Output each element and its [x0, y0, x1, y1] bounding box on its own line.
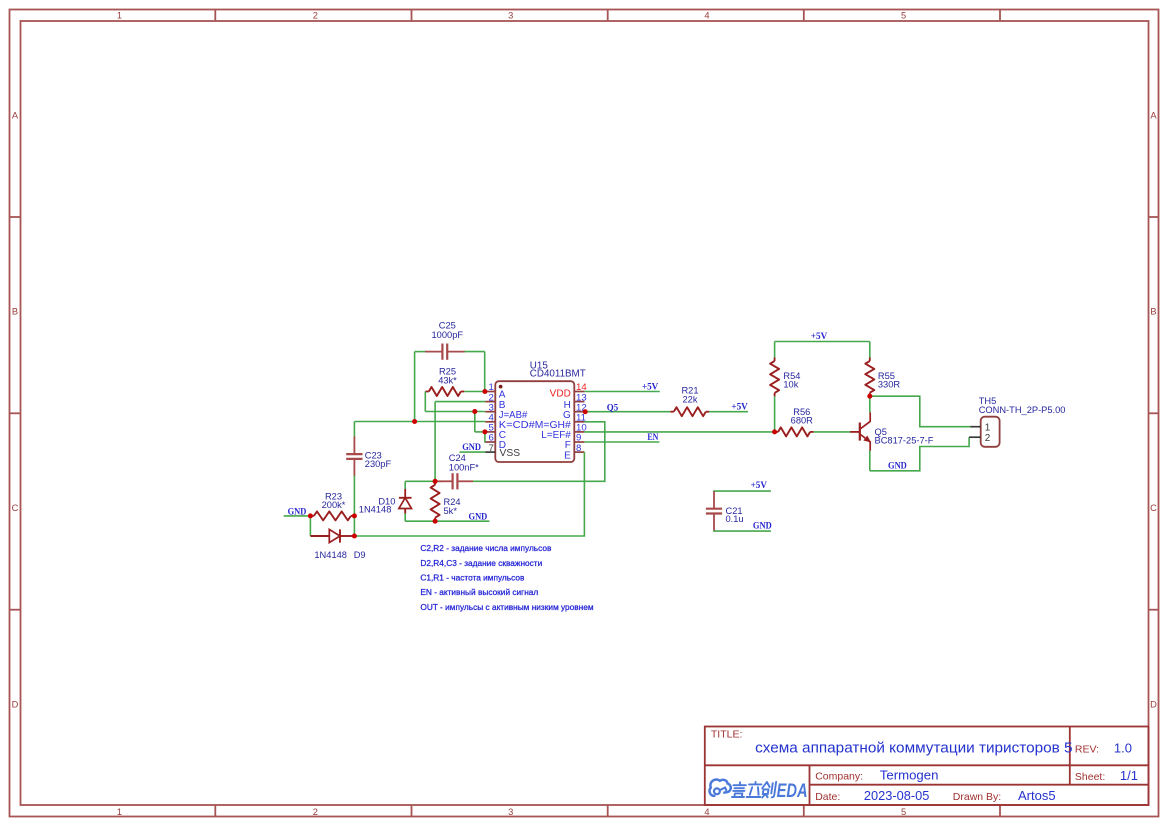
wire collector to R55 node — [869, 396, 871, 412]
svg-text:1: 1 — [117, 807, 122, 817]
svg-text:7: 7 — [488, 443, 493, 454]
svg-text:CONN-TH_2P-P5.00: CONN-TH_2P-P5.00 — [979, 405, 1066, 415]
svg-text:REV:: REV: — [1075, 744, 1099, 756]
svg-text:680R: 680R — [791, 415, 814, 425]
wire R25 left vertical — [424, 392, 426, 412]
wire pins3-5 vertical — [474, 412, 476, 432]
svg-text:Q5: Q5 — [607, 404, 619, 414]
svg-text:100nF*: 100nF* — [449, 463, 479, 473]
junction pin1 node — [482, 389, 487, 394]
wire pin9 EN — [584, 441, 659, 443]
wire C23 bottom vertical — [353, 476, 355, 537]
svg-text:VDD: VDD — [550, 389, 571, 400]
svg-text:1N4148: 1N4148 — [359, 505, 392, 515]
TH5 pin2 stub — [969, 436, 981, 438]
junction R23 right node — [352, 513, 357, 518]
svg-text:B: B — [12, 307, 18, 317]
wire D10-R24-C24 top run — [405, 480, 442, 482]
row tick marks — [10, 217, 1159, 610]
svg-text:A: A — [12, 110, 19, 120]
svg-text:43k*: 43k* — [438, 376, 457, 386]
svg-text:+5V: +5V — [811, 332, 828, 342]
wire D9 to pin8 vertical run — [354, 452, 584, 536]
wire C23 top vertical — [353, 422, 355, 438]
svg-text:+5V: +5V — [642, 382, 659, 392]
capacitor C25 — [425, 344, 465, 360]
svg-text:D2,R4,C3 - задание скважности: D2,R4,C3 - задание скважности — [420, 558, 542, 568]
transistor Q5 BC817-25-7-F — [850, 412, 870, 450]
svg-text:D: D — [12, 699, 19, 709]
svg-text:330R: 330R — [878, 379, 901, 389]
connector TH5 body — [981, 417, 1000, 447]
row letters A-D — [12, 110, 1158, 709]
JLCEDA logo — [710, 779, 808, 802]
resistor R56 680R — [775, 407, 814, 436]
IC U15 pin stubs — [485, 392, 584, 453]
wire R54 top lead — [774, 342, 776, 359]
svg-text:GND: GND — [753, 521, 772, 531]
title block lines — [705, 727, 1149, 806]
resistor R55 330R — [865, 358, 900, 397]
wire emitter GND loop to TH5 pin2 — [870, 437, 969, 471]
junction R55/collector node — [867, 394, 872, 399]
svg-text:C: C — [1150, 503, 1157, 513]
svg-text:3: 3 — [508, 11, 513, 21]
resistor R24 5k* — [431, 481, 461, 521]
svg-text:Termogen: Termogen — [880, 767, 939, 782]
wire GND to pin7 — [460, 451, 486, 453]
IC U15 pin-1 marker dot — [499, 385, 503, 389]
svg-text:4: 4 — [704, 807, 709, 817]
junction pin5 node — [482, 429, 487, 434]
wire R55 top lead — [869, 342, 871, 359]
resistor R54 10k — [770, 358, 800, 397]
svg-text:1000pF: 1000pF — [432, 330, 464, 340]
wire R21 right +5V — [709, 411, 748, 413]
svg-text:2023-08-05: 2023-08-05 — [864, 788, 929, 803]
svg-text:200k*: 200k* — [322, 500, 346, 510]
capacitor C23 — [346, 437, 362, 477]
IC U15 left pin names — [499, 390, 535, 459]
wire C25-right vertical to pin1 — [484, 352, 486, 392]
D9 value+ref label — [314, 550, 365, 560]
svg-text:1N4148: 1N4148 — [314, 550, 347, 560]
svg-text:8: 8 — [576, 443, 581, 454]
svg-text:EDA: EDA — [777, 779, 808, 802]
wire pin3 row — [425, 411, 485, 413]
svg-text:5k*: 5k* — [444, 506, 458, 516]
wire pin2 vertical to C24 node — [434, 402, 436, 482]
wire pin14 +5V — [584, 391, 659, 393]
svg-text:230pF: 230pF — [365, 459, 392, 469]
wire pin4 row — [354, 421, 485, 423]
junction R54/R56 node — [772, 429, 777, 434]
svg-text:1: 1 — [117, 11, 122, 21]
wire GND stub left — [284, 515, 311, 517]
svg-text:1.0: 1.0 — [1114, 741, 1132, 756]
svg-text:0.1u: 0.1u — [726, 514, 744, 524]
svg-text:+5V: +5V — [731, 403, 748, 413]
resistor R21 22k — [670, 385, 709, 416]
diode D9 1N4148 — [310, 529, 354, 542]
wire collector node to TH5 pin1 — [870, 396, 970, 427]
wire pins5-6 vertical — [484, 432, 486, 442]
wire C21 GND bottom — [714, 530, 771, 533]
svg-text:GND: GND — [888, 462, 907, 472]
svg-text:3: 3 — [508, 807, 513, 817]
IC U15 right pin names — [535, 389, 571, 462]
wire C25 left segment — [415, 351, 426, 353]
svg-text:VSS: VSS — [500, 448, 521, 459]
column numbers 1-5 — [117, 11, 906, 817]
svg-text:C: C — [12, 503, 19, 513]
svg-text:1: 1 — [985, 422, 991, 433]
svg-text:D: D — [1150, 699, 1157, 709]
wire C25-left vertical to C23 — [414, 352, 416, 422]
svg-text:2: 2 — [985, 433, 991, 444]
svg-text:EN - активный высокий сигнал: EN - активный высокий сигнал — [420, 587, 538, 597]
svg-text:5: 5 — [901, 11, 906, 21]
wire C21 +5V top — [714, 490, 771, 493]
capacitor C24 — [437, 473, 473, 489]
wire C24 right to pin11 branch — [473, 422, 605, 482]
svg-text:22k: 22k — [683, 394, 698, 404]
svg-text:4: 4 — [704, 11, 709, 21]
wire R25 right to pin1 junction — [464, 391, 485, 393]
diode D10 1N4148 — [399, 481, 412, 521]
svg-text:2: 2 — [313, 11, 318, 21]
svg-text:Date:: Date: — [815, 791, 840, 803]
column tick marks — [215, 10, 1000, 817]
resistor R23 200k* — [310, 491, 354, 520]
junction D9 cathode node — [352, 534, 357, 539]
wire +5V rail top — [775, 341, 870, 343]
junction pin4 row x C23 branch — [412, 419, 417, 424]
svg-text:+5V: +5V — [751, 481, 768, 491]
wire pin2 row — [435, 401, 485, 403]
wire pin10 to R56 junction — [584, 431, 774, 433]
wire R23 left vertical to D9 — [309, 516, 311, 536]
svg-text:Company:: Company: — [815, 770, 863, 782]
junction R24 bottom node — [433, 519, 438, 524]
svg-text:E: E — [564, 450, 571, 461]
svg-text:C2,R2 - задание числа импульсо: C2,R2 - задание числа импульсов — [420, 543, 552, 553]
junction C24 top-left node — [433, 479, 438, 484]
wire R54 bottom to R56 node — [774, 396, 776, 432]
svg-text:1/1: 1/1 — [1120, 768, 1138, 783]
wire pin12 to R21 — [584, 411, 670, 413]
svg-text:Drawn By:: Drawn By: — [953, 791, 1001, 803]
wire bottom run D10-R24-GND — [405, 520, 489, 522]
junction R23 left node — [308, 513, 313, 518]
svg-text:A: A — [1150, 110, 1157, 120]
wire emitter down — [869, 451, 871, 471]
svg-text:BC817-25-7-F: BC817-25-7-F — [875, 435, 934, 445]
svg-text:OUT - импульсы с активным низк: OUT - импульсы с активным низким уровнем — [420, 602, 593, 612]
wire C25 right segment — [464, 351, 485, 353]
svg-text:CD4011BMT: CD4011BMT — [530, 369, 586, 380]
capacitor C21 — [706, 491, 722, 531]
IC U15 pin numbers — [488, 382, 587, 454]
svg-text:TITLE:: TITLE: — [711, 729, 743, 741]
wire pin5 short — [475, 431, 485, 433]
junction pin3 row — [472, 409, 477, 414]
svg-text:схема аппаратной коммутации ти: схема аппаратной коммутации тиристоров 5 — [755, 739, 1073, 756]
svg-text:Sheet:: Sheet: — [1075, 771, 1105, 783]
schematic notes text block — [420, 543, 593, 612]
op IC U15 body CD4011BMT — [495, 381, 574, 462]
svg-text:10k: 10k — [783, 379, 798, 389]
svg-text:5: 5 — [901, 807, 906, 817]
TH5 pin1 stub — [970, 426, 981, 428]
svg-text:2: 2 — [313, 807, 318, 817]
wire R56 to Q5 base — [814, 431, 851, 433]
svg-text:GND: GND — [469, 513, 488, 523]
svg-text:B: B — [1150, 307, 1156, 317]
svg-text:EN: EN — [647, 433, 658, 443]
junction pin12 node — [583, 409, 588, 414]
svg-text:D9: D9 — [354, 550, 366, 560]
svg-text:Artos5: Artos5 — [1018, 788, 1056, 803]
resistor R25 43k* — [425, 367, 464, 396]
svg-text:C1,R1 - частота импульсов: C1,R1 - частота импульсов — [420, 573, 525, 583]
